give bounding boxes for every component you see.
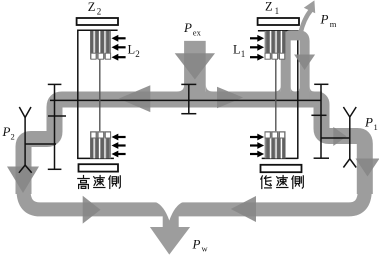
label high-speed side (kanji drawn) xyxy=(78,176,121,189)
kanji 側 xyxy=(109,176,121,189)
left gear mesh tick xyxy=(48,115,66,117)
right output fork shaft xyxy=(349,117,351,159)
rotor shaft xyxy=(99,59,101,131)
right connector to output fork xyxy=(321,137,350,139)
svg-text:2: 2 xyxy=(97,7,102,17)
excitation arrows (into lower block) xyxy=(250,134,264,158)
right fork bottom arms xyxy=(343,159,356,168)
right gear bottom cap xyxy=(314,157,329,159)
kanji 低 xyxy=(261,176,272,189)
svg-text:Z: Z xyxy=(88,0,96,14)
kanji 側 xyxy=(292,176,304,189)
winding block upper xyxy=(265,31,286,59)
right fork top arms xyxy=(343,107,356,117)
winding block upper xyxy=(90,31,111,59)
flow arrow P_m curved thin outlet xyxy=(300,10,311,35)
arrowhead P_m tip xyxy=(304,0,315,13)
svg-text:P: P xyxy=(364,115,373,130)
flow band: engine input P_ex vertical xyxy=(184,41,206,100)
frame bracket bottom lip xyxy=(262,157,298,159)
flow band: machine-1 rotor loop (up-over-down) xyxy=(286,35,305,103)
svg-text:w: w xyxy=(202,244,209,254)
white notch between merging bottom flows xyxy=(156,202,184,221)
arrowhead: main band pointing right xyxy=(217,87,243,109)
right gear shaft xyxy=(320,84,322,158)
arrowhead: P_ex pointing down xyxy=(175,53,215,79)
machine unit 2 (left, high-speed side) xyxy=(77,18,126,172)
svg-text:1: 1 xyxy=(374,122,378,132)
left fork bottom arms xyxy=(19,165,32,173)
arrowhead: right descent pointing down xyxy=(356,159,379,177)
flow band: main shaft horizontal + left S-path down xyxy=(24,100,323,195)
junction fillets where branches meet main band xyxy=(177,85,315,92)
label low-speed side (kanji drawn) xyxy=(261,176,304,189)
left connector to output fork xyxy=(25,143,56,145)
svg-text:1: 1 xyxy=(241,49,246,59)
flow arrowhead P_w (down to wheels) xyxy=(150,227,190,255)
excitation arrows (into lower block) xyxy=(112,134,126,158)
svg-text:Z: Z xyxy=(265,0,273,14)
left gear bottom cap xyxy=(48,168,62,170)
arrowhead: left descent pointing down xyxy=(7,167,39,194)
winding block lower xyxy=(265,131,286,158)
svg-text:L: L xyxy=(233,43,241,57)
excitation arrows L2 (into upper block) xyxy=(112,35,126,61)
kanji 速 xyxy=(94,176,105,188)
stator bar Z2 xyxy=(77,18,118,25)
flow band: bottom-right run to merge xyxy=(171,190,365,209)
winding block lower xyxy=(90,131,111,158)
arrowhead: bottom-left run pointing right xyxy=(83,196,101,224)
arrowhead: bottom-right run pointing left xyxy=(231,196,256,222)
input coupling: top cap xyxy=(181,83,196,85)
machine unit 1 (right, low-speed side) : mirror of left about x=187.8 xyxy=(250,18,302,172)
svg-text:P: P xyxy=(2,124,11,139)
left fork top arms xyxy=(19,107,31,118)
input coupling: shaft xyxy=(188,84,190,113)
svg-text:1: 1 xyxy=(275,6,280,16)
flow merge: central stem to wheels xyxy=(163,205,179,228)
main shaft line xyxy=(50,99,321,101)
right gear mesh tick xyxy=(311,114,326,116)
kanji 高 xyxy=(78,176,89,189)
arrowhead: right jog pointing right xyxy=(333,127,346,146)
svg-text:P: P xyxy=(192,237,201,252)
flow band: right turn-down, jog to P1 shaft, down xyxy=(317,100,365,195)
svg-text:L: L xyxy=(128,43,136,57)
input coupling: bottom cap xyxy=(181,113,196,115)
svg-text:2: 2 xyxy=(11,132,15,142)
arrowhead: main band pointing left xyxy=(119,85,151,112)
left output fork shaft xyxy=(24,118,26,166)
kanji 速 xyxy=(277,176,288,188)
bar of low-speed rotor xyxy=(261,165,302,172)
frame bracket of machine 1, lower vertical (over flow) xyxy=(297,91,299,159)
excitation arrows L1 (into upper block) xyxy=(250,35,264,61)
frame bracket of machine 1 (under flow) xyxy=(258,31,298,92)
right gear top cap xyxy=(314,83,328,85)
bar of high-speed rotor xyxy=(79,164,119,171)
arrowhead: machine-1 loop pointing down xyxy=(294,55,315,71)
stator bar Z1 xyxy=(258,18,299,25)
frame bracket xyxy=(78,30,118,158)
svg-text:2: 2 xyxy=(135,49,140,59)
rotor shaft xyxy=(275,59,277,131)
flow band: bottom-left run to merge xyxy=(24,190,172,209)
left gear top cap xyxy=(48,83,62,85)
svg-text:ex: ex xyxy=(193,27,202,37)
left gear shaft xyxy=(54,84,56,169)
svg-text:P: P xyxy=(183,20,192,35)
svg-text:m: m xyxy=(330,19,337,29)
svg-text:P: P xyxy=(320,12,329,27)
